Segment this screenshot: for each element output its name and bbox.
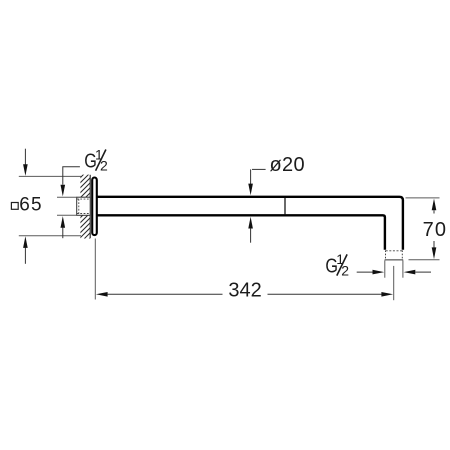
dim 342: left arrow bbox=[96, 292, 223, 297]
dim G1/2 left: top arrow bbox=[61, 185, 66, 197]
wall-side thread root dashed lines bbox=[77, 199, 90, 214]
dim 70: bottom arrow bbox=[432, 241, 437, 259]
dim square65: extension line top bbox=[19, 175, 81, 177]
dim 342: extension line left bbox=[94, 239, 96, 300]
tube seam joint line bbox=[284, 198, 286, 215]
dim dia20: top arrow bbox=[248, 184, 253, 196]
dim square65: label bbox=[11, 194, 43, 215]
outlet thread G1/2 transition dashed line bbox=[386, 250, 402, 252]
wall-side thread G1/2 outline bbox=[77, 197, 91, 215]
dim 70: top arrow bbox=[432, 199, 437, 214]
wall hatch bbox=[72, 160, 98, 271]
dim G1/2 right: left arrow bbox=[357, 270, 385, 275]
dim 70: extension line bottom bbox=[409, 259, 440, 261]
dim G1/2 right: extension lines bbox=[385, 260, 403, 277]
dim 342: right arrow bbox=[268, 292, 394, 297]
escutcheon flange plate bbox=[92, 178, 97, 236]
dim dia20: leader bbox=[251, 169, 266, 184]
dim 70: extension line top bbox=[406, 197, 440, 199]
svg-text:2: 2 bbox=[341, 263, 349, 279]
svg-text:2: 2 bbox=[100, 158, 108, 174]
dim dia20: bottom arrow bbox=[248, 217, 253, 243]
dim G1/2 left: leader polyline bbox=[63, 167, 80, 185]
shower arm tube top outline bbox=[98, 197, 403, 250]
svg-text:342: 342 bbox=[228, 279, 261, 301]
outlet thread end line bbox=[385, 259, 404, 261]
svg-text:70: 70 bbox=[423, 219, 447, 241]
dim G1/2 left: extension stubs bbox=[57, 197, 77, 215]
dim square65: extension line bottom bbox=[19, 235, 81, 237]
dim square65: top arrow bbox=[23, 149, 28, 176]
outlet thread dotted side lines bbox=[386, 250, 403, 259]
dim G1/2 left: label bbox=[84, 146, 108, 173]
shower arm tube bottom outline bbox=[98, 215, 385, 249]
svg-text:ø20: ø20 bbox=[270, 154, 305, 176]
dim G1/2 right: right arrow bbox=[404, 270, 431, 275]
dim G1/2 left: bottom arrow bbox=[61, 216, 66, 238]
dim square65: bottom arrow bbox=[23, 236, 28, 264]
wall face line bbox=[89, 175, 91, 238]
dim G1/2 right: label bbox=[325, 251, 349, 278]
dim 342: extension line right bbox=[393, 266, 395, 300]
svg-text:65: 65 bbox=[19, 194, 43, 215]
